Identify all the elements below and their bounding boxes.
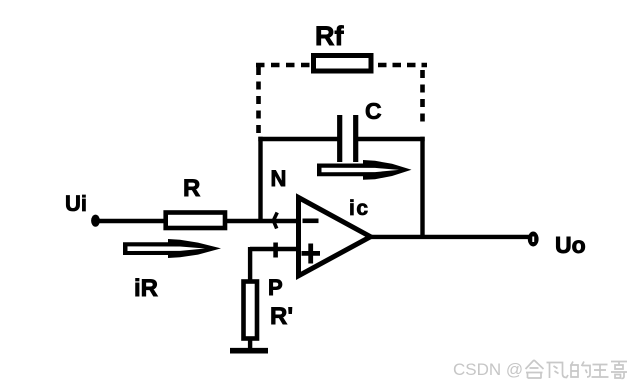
fei (547, 363, 569, 379)
resistor R' (244, 282, 258, 339)
wire capacitor-branch top-right (356, 137, 425, 141)
ground (230, 348, 268, 354)
svg-text:P: P (268, 275, 283, 300)
current mark on non-inverting input (273, 243, 278, 258)
ge (611, 362, 627, 379)
current arrow iR (123, 239, 221, 258)
wire dashed feedback right vertical (420, 70, 425, 128)
watermark chinese glyphs (526, 360, 628, 379)
wire non-inverting input (250, 247, 299, 251)
hui (526, 360, 544, 378)
current arrow ic (317, 160, 412, 180)
svg-text:R: R (183, 175, 200, 202)
resistor R (166, 213, 225, 229)
op-amp U1 (299, 198, 371, 276)
svg-text:Ui: Ui (65, 191, 87, 216)
terminal Ui (91, 215, 100, 227)
wire dashed feedback top-left segment (256, 63, 311, 68)
wire R to op-amp inverting input (225, 219, 299, 223)
terminal Uo (528, 232, 539, 247)
wire right vertical to output (420, 137, 424, 238)
svg-text:Uo: Uo (555, 232, 586, 258)
wang (592, 365, 609, 378)
wire dashed feedback left vertical (256, 67, 261, 133)
wire capacitor-branch top-left (258, 137, 339, 141)
current mark on inverting input (273, 213, 277, 229)
capacitor C (340, 115, 356, 162)
svg-text:ic: ic (349, 197, 370, 220)
svg-text:iR: iR (134, 275, 158, 302)
wire node P vertical (248, 247, 252, 282)
wire output (370, 235, 529, 239)
svg-text:R': R' (270, 303, 293, 330)
wire dashed feedback top-right segment (378, 63, 427, 68)
resistor Rf (314, 56, 372, 72)
svg-text:CSDN @: CSDN @ (453, 360, 523, 379)
svg-text:C: C (365, 98, 382, 124)
svg-text:N: N (271, 166, 287, 191)
de (571, 362, 591, 378)
wire Ui to R (98, 219, 166, 223)
svg-text:Rf: Rf (315, 21, 344, 51)
wire R' to ground (248, 338, 252, 352)
wire node N vertical (258, 137, 262, 222)
